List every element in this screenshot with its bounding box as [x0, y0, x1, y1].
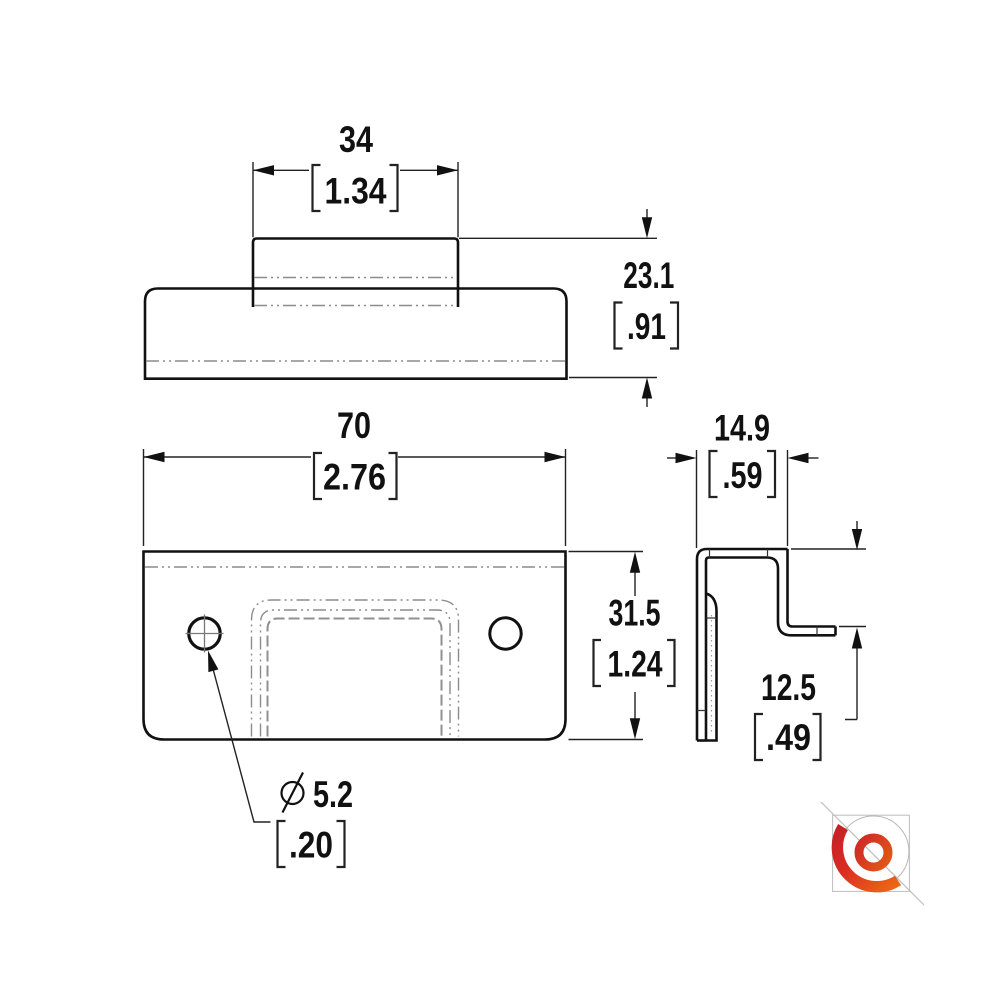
- side profile: leg bottom cap: [697, 739, 706, 742]
- phantom line across body: [146, 360, 566, 362]
- dimension 23.1: top arrow: [646, 209, 648, 220]
- dimension 34: extension lines: [253, 162, 458, 237]
- side profile: flange bottom, drop left, underside, leg inner: [706, 558, 836, 741]
- dimension 34: left arrowhead: [253, 165, 274, 175]
- phantom line lower in tab: [254, 305, 457, 307]
- svg-text:1.34: 1.34: [325, 171, 387, 212]
- dimension 70: left arrowhead: [144, 452, 165, 462]
- side profile: drop right edge and flange top: [788, 549, 836, 627]
- diameter symbol: [282, 782, 304, 804]
- svg-text:1.24: 1.24: [608, 644, 663, 685]
- bend tangent ticks: [697, 549, 817, 711]
- hidden tab outline middle: [261, 610, 451, 737]
- svg-text:12.5: 12.5: [761, 667, 816, 708]
- tab outline: [253, 239, 458, 308]
- logo thin circle: [838, 816, 909, 887]
- dimension 14.9: left arrow outside: [667, 457, 677, 459]
- dimension 31.5: top arrow: [634, 571, 636, 596]
- hole callout arrowhead: [208, 651, 218, 673]
- hidden tab outline inner: [268, 619, 442, 737]
- dimension 70: extension lines: [144, 449, 566, 546]
- hidden tab outline outer: [252, 600, 459, 737]
- phantom bend line near top: [145, 566, 564, 568]
- hidden seam dotted line: [711, 615, 713, 735]
- dimension 31.5: bottom arrow: [634, 692, 636, 720]
- svg-text:2.76: 2.76: [323, 457, 386, 498]
- phantom line upper in tab: [254, 277, 457, 279]
- dimension 12.5: top extension line: [791, 548, 866, 550]
- dimension 12.5: bottom extension line: [839, 626, 866, 628]
- hole callout leader line: [211, 661, 271, 822]
- logo outer arc: [837, 827, 898, 887]
- dimension 23.1: bottom arrow: [646, 396, 648, 407]
- svg-text:70: 70: [337, 405, 371, 446]
- svg-text:.59: .59: [723, 455, 763, 496]
- logo inner ring: [859, 838, 888, 867]
- dimension 31.5: brackets: [594, 640, 675, 686]
- svg-text:23.1: 23.1: [623, 255, 674, 296]
- dimension 12.5: brackets: [755, 714, 821, 760]
- body outline: [145, 289, 567, 379]
- dimension 14.9: brackets: [710, 451, 776, 497]
- dimension 34: dimension line: [253, 169, 458, 171]
- dimension 70: brackets: [314, 453, 397, 499]
- dimension 70: dimension line: [144, 456, 566, 458]
- dimension 23.1: brackets: [615, 303, 679, 349]
- dimension 34: brackets: [313, 165, 398, 211]
- svg-text:.20: .20: [289, 825, 333, 866]
- svg-text:.91: .91: [627, 306, 666, 347]
- hole right: [490, 618, 521, 649]
- side profile: leg outer and top surface: [697, 549, 788, 741]
- logo square: [833, 815, 910, 891]
- dimension 12.5: top arrow: [856, 521, 858, 531]
- plate outline: [144, 552, 566, 740]
- dimension 14.9: extension lines: [697, 450, 788, 548]
- dimension 31.5: extension lines: [569, 552, 644, 740]
- hole left (5.2 dia): [189, 618, 220, 649]
- svg-text:.49: .49: [766, 717, 811, 758]
- svg-text:31.5: 31.5: [609, 593, 661, 634]
- dimension 12.5: bottom arrow with tail: [845, 646, 857, 720]
- svg-text:14.9: 14.9: [714, 408, 770, 449]
- dimension 23.1: bottom extension line: [569, 377, 657, 379]
- dimension 70: right arrowhead: [545, 452, 566, 462]
- svg-text:34: 34: [339, 119, 373, 160]
- side profile: folded tab layer: [706, 594, 717, 741]
- hole diameter brackets: [278, 821, 345, 867]
- hole left crosshair: [186, 615, 224, 653]
- svg-text:5.2: 5.2: [313, 774, 353, 815]
- dimension 34: right arrowhead: [437, 165, 458, 175]
- dimension 14.9: right arrow outside: [806, 457, 819, 459]
- logo diagonal line: [821, 802, 924, 905]
- side profile: flange end cap: [834, 627, 837, 636]
- dimension 23.1: top extension line: [459, 237, 657, 239]
